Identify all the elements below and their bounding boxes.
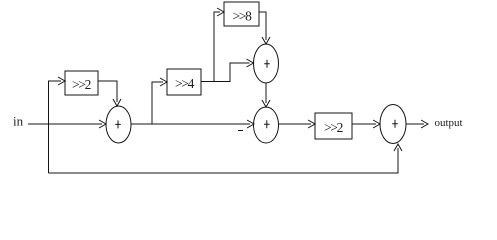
arrow into box B1 xyxy=(58,77,65,85)
svg-text:>>8: >>8 xyxy=(232,9,252,24)
wire B4 output to adder A4 xyxy=(352,123,376,125)
wire B3 output to adder A2 top xyxy=(259,12,266,40)
wire A1 output to adder A3 xyxy=(131,123,250,125)
svg-text:in: in xyxy=(13,114,24,129)
arrow into adder A2 left xyxy=(247,59,254,67)
plus sign A2 xyxy=(264,60,270,68)
arrow into adder A1 top xyxy=(113,99,121,106)
adder A4 xyxy=(380,105,406,144)
plus sign A1 xyxy=(115,120,121,128)
svg-text:>>2: >>2 xyxy=(324,120,343,135)
wire feedback bottom xyxy=(49,148,399,173)
plus sign A3 xyxy=(264,120,270,128)
minus label at A3 input xyxy=(238,130,243,132)
arrow into adder A1 xyxy=(99,120,106,128)
wire input main line xyxy=(28,123,102,125)
wire A3 output to shifter B4 xyxy=(279,123,312,125)
shifter B4 box xyxy=(315,113,352,139)
wire B2 output step to adder A2 xyxy=(201,63,250,82)
arrow into box B3 xyxy=(217,8,224,16)
arrow into box B2 xyxy=(160,78,167,86)
arrow into adder A2 top xyxy=(262,37,270,44)
shifter B2 box xyxy=(167,69,201,95)
wire A4 output xyxy=(406,123,424,125)
arrow to output xyxy=(421,120,428,128)
adder A2 xyxy=(254,44,279,83)
wire branch up to shifter B2 xyxy=(152,82,163,124)
wire branch up to shifter B1 xyxy=(49,81,62,173)
wire A2 output down to adder A3 xyxy=(265,83,267,103)
adder A3 xyxy=(254,107,279,143)
arrow into adder A4 bottom xyxy=(394,144,402,151)
svg-text:>>2: >>2 xyxy=(72,77,91,92)
wire branch up to shifter B3 xyxy=(214,12,220,82)
arrow into adder A4 xyxy=(373,120,380,128)
plus sign A4 xyxy=(392,120,398,128)
svg-text:>>4: >>4 xyxy=(175,76,195,91)
svg-text:output: output xyxy=(435,117,463,129)
shifter B3 box xyxy=(224,2,259,26)
shifter B1 box xyxy=(65,71,98,95)
adder A1 xyxy=(106,106,131,143)
arrow into adder A3 xyxy=(247,120,254,128)
wire B1 output to adder A1 top xyxy=(98,81,117,102)
arrow into adder A3 top xyxy=(262,100,270,107)
arrow into box B4 xyxy=(308,120,315,128)
